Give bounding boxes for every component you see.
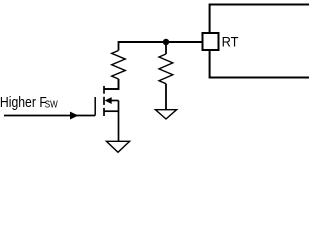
source stub [104,110,119,112]
source vertical to ground [118,101,120,142]
arrowhead on gate wire [70,112,78,120]
wire: RT pin to node A [119,41,202,43]
channel bottom dash [103,108,105,116]
gate line [94,97,96,116]
pin RT (box on IC edge) [203,33,219,50]
wire: node A down to R2 [165,42,167,54]
svg-text:SW: SW [45,99,58,110]
wire: R2 bottom lead [165,84,167,110]
IC U1 outline (partial box, open to right) [209,5,309,78]
svg-text:Higher F: Higher F [0,95,47,111]
body arrow of Q1 [105,97,112,104]
svg-text:RT: RT [222,35,239,51]
wire: R1 bottom lead to Q1 drain [104,79,119,89]
ground (below Q1 source, open triangle) [106,141,129,152]
channel middle dash [103,97,105,105]
transistor Q1 (NMOS) [95,79,118,141]
node A (junction dot) [163,39,169,45]
body stub [111,100,119,102]
ground (below R2, open triangle) [155,110,176,119]
resistor R2 (to ground) [159,54,173,84]
channel top dash [103,86,105,94]
drain stub [104,79,119,89]
resistor R1 (timing resistor, drain side) [112,51,126,80]
wire: left resistor top lead [118,41,120,51]
wire: gate drive from left [4,115,95,117]
